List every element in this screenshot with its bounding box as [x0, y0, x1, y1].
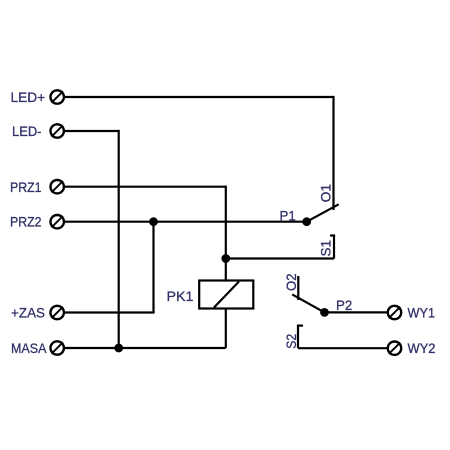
switch O1 contact arm — [307, 204, 339, 221]
terminal PRZ1 — [51, 180, 64, 193]
svg-text:MASA: MASA — [11, 340, 47, 356]
terminal MASA — [51, 341, 64, 354]
junction dot LED-/MASA — [115, 345, 122, 352]
svg-text:O2: O2 — [283, 273, 299, 291]
wire MASA horizontal — [65, 347, 226, 349]
svg-text:LED-: LED- — [12, 123, 42, 139]
svg-text:PRZ1: PRZ1 — [10, 179, 42, 195]
wire +ZAS horizontal — [65, 311, 154, 312]
switch O2 contact arm — [292, 294, 324, 312]
terminal PRZ2 — [51, 215, 64, 228]
wire S2 to WY2 — [298, 347, 388, 349]
node P2 dot — [321, 309, 328, 316]
svg-text:PK1: PK1 — [167, 288, 194, 304]
svg-text:+ZAS: +ZAS — [11, 304, 45, 320]
terminal WY1 — [388, 306, 401, 319]
wire S1 horizontal — [226, 257, 334, 259]
wire PRZ1 horizontal — [65, 186, 226, 188]
wire LED- vertical to MASA — [118, 130, 120, 348]
svg-text:P2: P2 — [336, 297, 352, 313]
wire PRZ1 vertical to relay coil — [225, 186, 227, 281]
svg-text:S2: S2 — [283, 334, 299, 349]
relay coil PK1 — [199, 281, 253, 309]
junction dot PRZ2/+ZAS — [150, 218, 157, 225]
wire LED- horizontal — [65, 130, 119, 132]
wire S2 contact vertical — [297, 326, 299, 349]
svg-text:O1: O1 — [318, 184, 334, 203]
wire O1 terminal vertical — [332, 96, 334, 210]
svg-text:S1: S1 — [318, 240, 334, 257]
node P1 dot — [303, 218, 310, 225]
svg-text:PRZ2: PRZ2 — [10, 214, 42, 230]
svg-text:WY2: WY2 — [408, 340, 436, 356]
svg-text:WY1: WY1 — [408, 304, 436, 320]
svg-text:LED+: LED+ — [11, 89, 46, 105]
terminal LED+ — [51, 90, 64, 103]
wire relay bottom to MASA — [225, 309, 227, 349]
terminal WY2 — [388, 342, 401, 355]
S2 contact tick — [297, 325, 303, 327]
svg-text:P1: P1 — [280, 207, 296, 223]
junction dot S1 branch — [223, 255, 230, 262]
wire P2 to WY1 — [325, 311, 389, 313]
S1 contact tick — [330, 234, 335, 236]
wire PRZ2 horizontal to P1 — [65, 221, 307, 223]
wire O2 contact stub — [297, 276, 299, 300]
terminal LED- — [51, 124, 64, 137]
wire S1 contact vertical — [333, 236, 335, 259]
wire LED+ horizontal — [65, 96, 334, 98]
wire +ZAS branch vertical — [152, 222, 154, 313]
terminal +ZAS — [51, 306, 64, 319]
